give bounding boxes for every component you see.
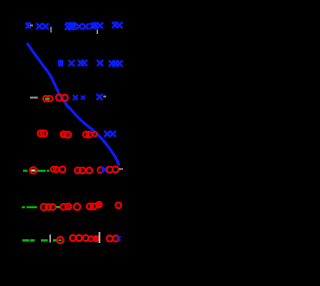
row F green dashes — [22, 206, 37, 208]
row E red ring with pale dash — [30, 167, 37, 174]
row G gray tick — [49, 235, 51, 243]
row G red filled marker — [93, 236, 99, 242]
row G red ring with green dash — [57, 237, 63, 243]
row C small blue X — [81, 96, 85, 100]
row C red ring pair on line — [56, 94, 68, 101]
row G green dashed error bar — [22, 239, 56, 241]
row A gray tick — [50, 27, 51, 33]
row C gray dash — [30, 97, 38, 99]
row G red ring pair right — [107, 236, 119, 242]
row F red ring triple — [41, 204, 56, 211]
row A blue X cluster 6 — [112, 22, 123, 29]
row B blue X triple — [109, 60, 123, 66]
blue model light-curve line — [27, 43, 119, 166]
row D red ring pair — [38, 130, 48, 136]
row A blue X cluster 4 — [76, 23, 96, 30]
row E red ring pair right — [107, 166, 119, 172]
row E red ring triple 2 — [75, 167, 92, 173]
row A blue X cluster 3 — [65, 22, 77, 30]
row D red ring pair 2 — [83, 132, 92, 138]
row D small red ring on line — [93, 132, 97, 136]
row A blue X pair — [36, 23, 49, 29]
row B blue X pair — [78, 60, 88, 66]
row E gray dash — [119, 168, 123, 170]
row A gray tick 2 — [97, 30, 98, 35]
row D filled red pair — [61, 131, 71, 137]
row A gray smudge — [30, 25, 33, 27]
row G red ring triple — [70, 235, 89, 241]
row E green dashed error bar — [23, 170, 49, 172]
row F red ring right — [116, 202, 122, 208]
row A blue X cluster 5 — [92, 22, 103, 28]
row A blue X cluster 1 — [25, 22, 31, 28]
row B blue block marker — [58, 60, 63, 67]
row E blue X — [102, 167, 108, 173]
row C red ring pair with green dash — [43, 96, 53, 102]
row F red filled marker — [96, 202, 102, 208]
row C blue X — [73, 95, 78, 100]
row B blue X — [68, 60, 74, 66]
row F red ring + filled ring — [61, 204, 72, 210]
row F green dash — [56, 206, 60, 208]
row F red ring — [74, 204, 81, 211]
row C blue X with gray dash — [96, 94, 106, 100]
row E red ring — [98, 167, 104, 173]
row G gray tick 2 — [99, 232, 101, 243]
row D blue X pair — [104, 131, 116, 137]
row F red ring pair — [87, 203, 97, 209]
row B blue X — [97, 60, 103, 66]
row E red ring triple — [51, 166, 66, 172]
row G small blue x — [117, 236, 121, 240]
row G red ring — [88, 236, 93, 241]
